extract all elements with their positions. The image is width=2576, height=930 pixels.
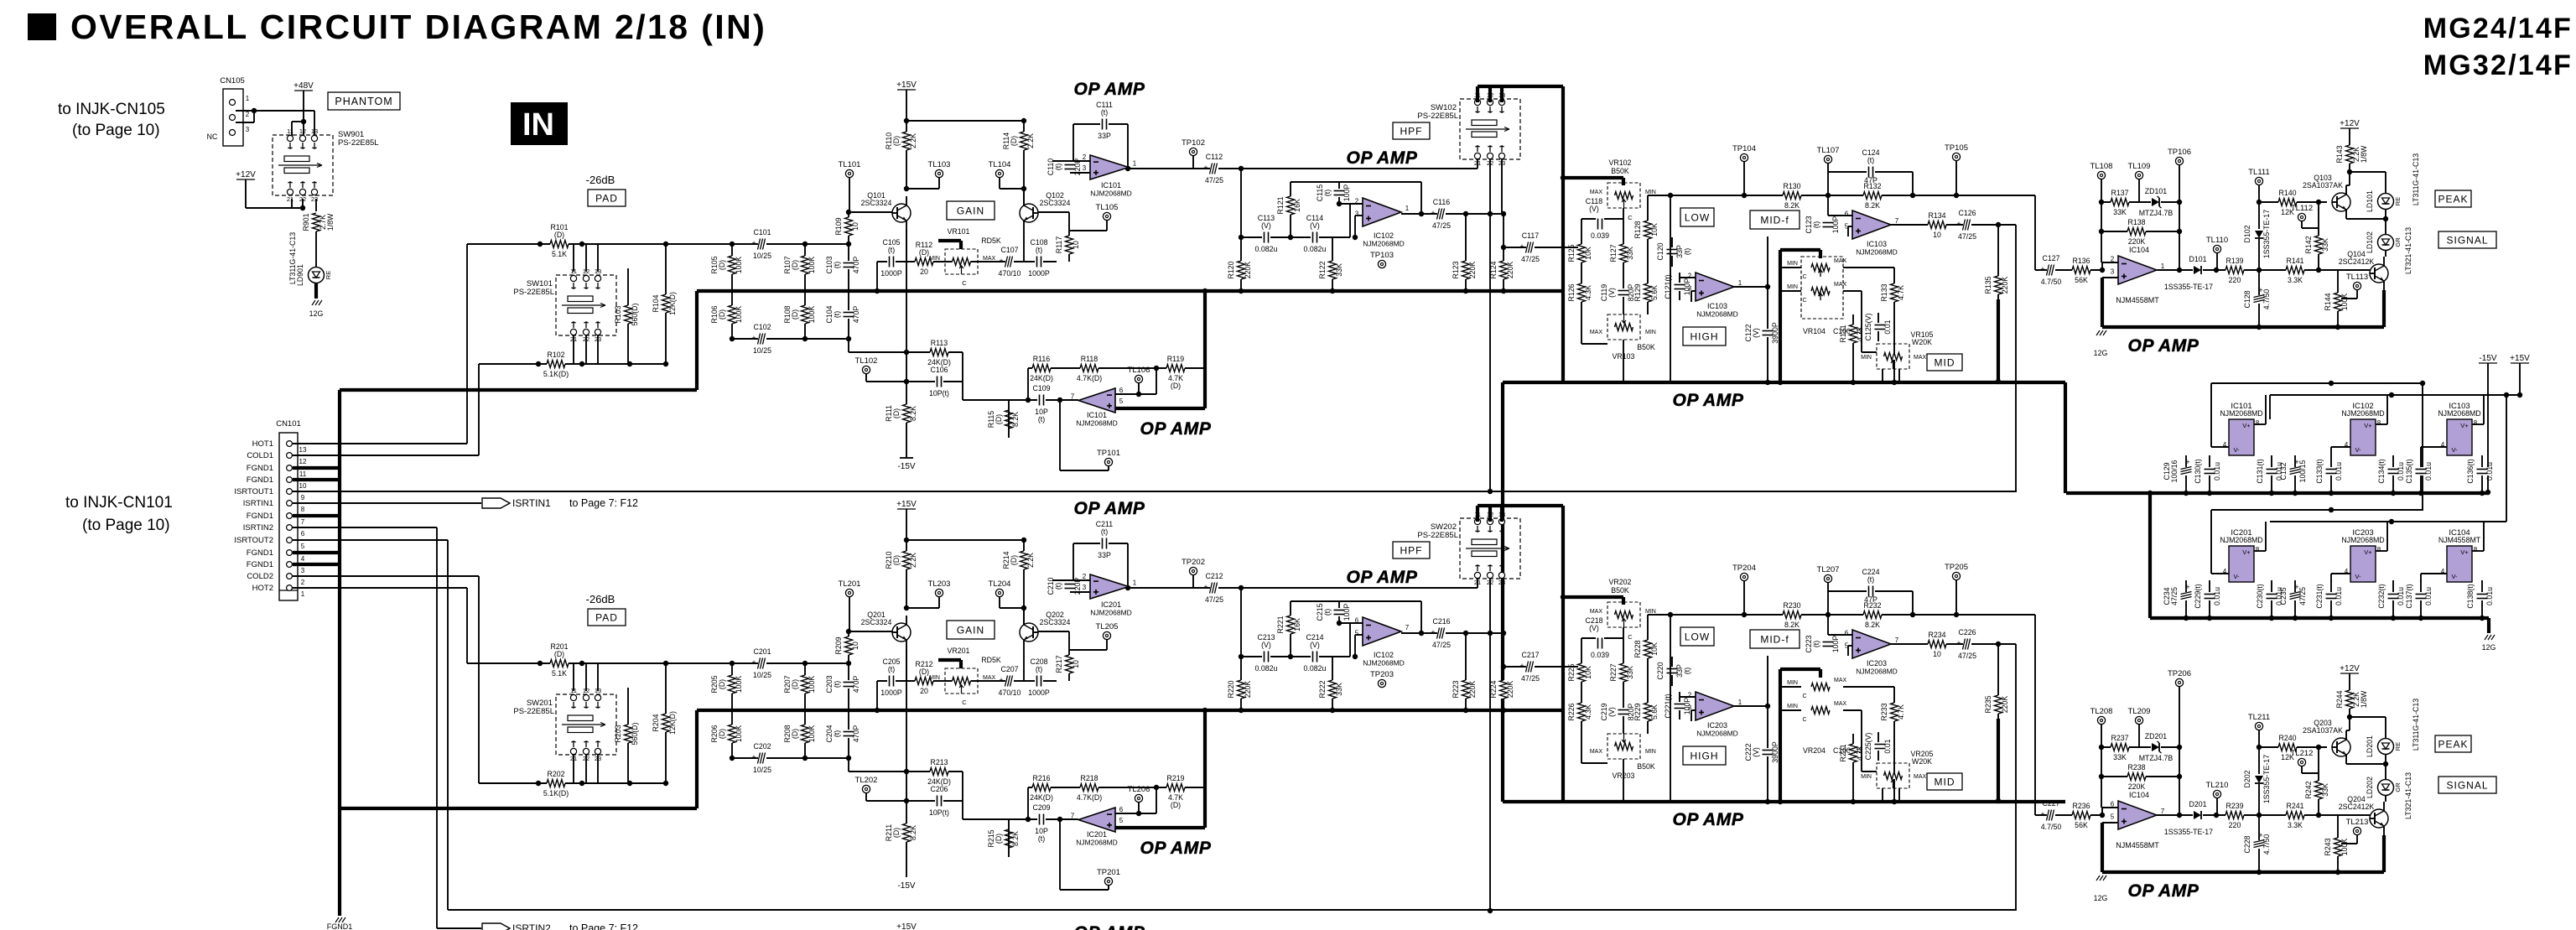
junction xyxy=(904,538,909,543)
junction xyxy=(802,756,808,761)
capacitor C116 xyxy=(1437,207,1446,221)
wire xyxy=(293,466,340,470)
svg-text:R236: R236 xyxy=(2072,802,2090,810)
svg-text:GAIN: GAIN xyxy=(957,624,984,636)
svg-text:R137: R137 xyxy=(2111,189,2128,197)
wire xyxy=(2034,740,2036,815)
capacitor C124 xyxy=(1867,165,1875,179)
svg-text:IC102: IC102 xyxy=(1374,231,1394,240)
svg-text:+: + xyxy=(2040,265,2044,273)
svg-text:1/8W: 1/8W xyxy=(2360,690,2368,708)
svg-text:V-: V- xyxy=(2355,446,2361,454)
wire xyxy=(436,527,438,928)
svg-text:+15V: +15V xyxy=(2510,354,2530,363)
svg-text:HIGH: HIGH xyxy=(1690,330,1719,342)
junction xyxy=(536,781,541,786)
wire xyxy=(1108,466,1109,470)
svg-text:OVERALL CIRCUIT DIAGRAM 2/18 (: OVERALL CIRCUIT DIAGRAM 2/18 (IN) xyxy=(70,8,766,46)
svg-text:OP AMP: OP AMP xyxy=(1140,839,1212,858)
svg-text:R226: R226 xyxy=(1567,703,1576,720)
wire xyxy=(1862,351,1877,353)
svg-text:7: 7 xyxy=(2161,808,2165,815)
diode D102 xyxy=(2254,229,2264,239)
wire xyxy=(2382,835,2386,872)
capacitor C207 xyxy=(1005,674,1014,688)
junction xyxy=(1021,186,1026,191)
wire xyxy=(1843,267,1894,268)
svg-text:-26dB: -26dB xyxy=(586,593,615,605)
wire xyxy=(1023,121,1025,204)
svg-text:0.039: 0.039 xyxy=(1591,231,1609,240)
resistor R238 xyxy=(2127,773,2146,780)
resistor R114 xyxy=(1021,132,1027,150)
svg-text:1: 1 xyxy=(246,95,250,102)
svg-text:R126: R126 xyxy=(1567,283,1576,301)
box label MID xyxy=(1927,773,1962,790)
svg-text:56K: 56K xyxy=(2075,821,2088,829)
svg-text:(V): (V) xyxy=(1607,707,1616,717)
svg-text:10/25: 10/25 xyxy=(753,671,771,679)
wire xyxy=(1877,313,1879,341)
junction xyxy=(875,288,880,294)
wire xyxy=(1893,268,1895,382)
pin FGND1 xyxy=(287,465,293,471)
wire xyxy=(1060,470,1109,471)
svg-text:R134: R134 xyxy=(1928,211,1945,220)
junction xyxy=(301,119,306,124)
junction xyxy=(1561,595,1566,600)
svg-text:C212: C212 xyxy=(1205,572,1223,580)
resistor R224 xyxy=(1500,680,1507,699)
wire xyxy=(2487,618,2490,633)
svg-text:R223: R223 xyxy=(1452,680,1460,698)
junction xyxy=(1463,211,1468,216)
wire xyxy=(2506,395,2507,522)
wire xyxy=(1338,601,1340,623)
svg-text:-26dB: -26dB xyxy=(586,174,615,186)
capacitor C212 xyxy=(1210,581,1218,595)
svg-text:47P: 47P xyxy=(1864,595,1877,604)
capacitor C120 xyxy=(1665,247,1679,256)
svg-text:R239: R239 xyxy=(2225,802,2243,810)
wire xyxy=(2035,269,2102,271)
junction xyxy=(904,118,909,123)
junction xyxy=(904,769,909,774)
wire xyxy=(1115,393,1156,395)
resistor R121 xyxy=(1287,196,1294,215)
svg-text:6: 6 xyxy=(1845,210,1849,218)
resistor R138 xyxy=(2127,228,2146,235)
wire xyxy=(293,575,479,577)
svg-text:COLD2: COLD2 xyxy=(247,572,273,581)
junction xyxy=(663,661,668,666)
wire xyxy=(1008,819,1010,857)
svg-text:(t): (t) xyxy=(833,262,841,268)
wire xyxy=(1070,591,1090,593)
wire xyxy=(963,399,1078,401)
wire xyxy=(1069,230,1107,231)
capacitor C110 xyxy=(1063,163,1077,171)
svg-text:C235: C235 xyxy=(2279,587,2288,605)
svg-text:TL209: TL209 xyxy=(2128,707,2151,716)
junction xyxy=(1765,799,1770,804)
wire xyxy=(597,755,599,783)
wire xyxy=(1129,168,1478,169)
wire xyxy=(1561,86,1565,382)
wire xyxy=(2265,522,2267,551)
svg-text:(t): (t) xyxy=(1323,609,1332,616)
svg-text:CN101: CN101 xyxy=(276,419,301,429)
wire xyxy=(906,230,907,262)
svg-text:C202: C202 xyxy=(753,742,771,751)
wire xyxy=(1332,237,1333,291)
resistor R239 xyxy=(2225,812,2244,818)
wire xyxy=(2102,277,2118,278)
svg-text:1: 1 xyxy=(301,590,305,598)
svg-text:PS-22E85L: PS-22E85L xyxy=(1417,112,1458,121)
wire xyxy=(2101,823,2104,872)
svg-text:OP AMP: OP AMP xyxy=(1074,499,1145,518)
wire xyxy=(2211,382,2423,384)
svg-text:VR201: VR201 xyxy=(948,647,970,655)
svg-text:C109: C109 xyxy=(1032,384,1050,392)
svg-text:C125(V): C125(V) xyxy=(1864,314,1872,341)
wire xyxy=(1488,506,1492,522)
wire xyxy=(1581,637,1623,639)
svg-text:D102: D102 xyxy=(2243,225,2251,242)
svg-text:+: + xyxy=(751,658,756,667)
junction xyxy=(1154,366,1159,371)
wire xyxy=(2301,766,2303,773)
svg-text:V-: V- xyxy=(2451,446,2458,454)
junction xyxy=(627,361,632,366)
wire xyxy=(2331,446,2350,448)
svg-text:2: 2 xyxy=(301,579,305,586)
svg-text:V-: V- xyxy=(2233,573,2240,580)
junction xyxy=(1778,799,1783,804)
svg-text:MAX: MAX xyxy=(1834,282,1847,288)
ground xyxy=(2096,330,2106,335)
box label PAD xyxy=(588,190,626,206)
wire xyxy=(293,502,481,504)
svg-text:R133: R133 xyxy=(1880,283,1888,301)
svg-text:+: + xyxy=(1519,662,1524,670)
wire xyxy=(315,199,317,211)
junction xyxy=(300,205,305,210)
svg-text:(D): (D) xyxy=(995,834,1003,844)
junction xyxy=(579,781,584,786)
junction xyxy=(2316,745,2321,750)
capacitor C232(t) xyxy=(2386,592,2400,600)
svg-text:R243: R243 xyxy=(2324,838,2332,855)
svg-text:FGND1: FGND1 xyxy=(247,548,273,558)
resistor R211 xyxy=(903,823,910,842)
wire xyxy=(1912,172,1914,195)
svg-text:TL103: TL103 xyxy=(928,160,951,169)
svg-text:MIN: MIN xyxy=(1645,330,1656,335)
svg-text:TL206: TL206 xyxy=(1128,785,1150,794)
svg-text:100K: 100K xyxy=(735,725,743,743)
svg-text:MAX: MAX xyxy=(983,256,996,262)
wire xyxy=(2254,423,2266,425)
junction xyxy=(875,708,880,713)
wire xyxy=(2216,798,2218,815)
wire xyxy=(866,800,906,802)
resistor R225 xyxy=(1578,663,1585,682)
svg-text:0.01u: 0.01u xyxy=(2213,462,2221,481)
junction xyxy=(1765,284,1770,289)
wire xyxy=(2318,747,2319,815)
wire xyxy=(627,268,629,364)
svg-text:(t): (t) xyxy=(1323,190,1332,196)
title square xyxy=(28,13,56,40)
svg-text:VR204: VR204 xyxy=(1803,746,1826,755)
svg-text:+12V: +12V xyxy=(2340,119,2360,128)
svg-text:(t): (t) xyxy=(833,730,841,737)
svg-text:W20K: W20K xyxy=(1912,338,1932,346)
svg-text:C134(t): C134(t) xyxy=(2377,459,2386,483)
wire xyxy=(1052,160,1090,162)
wire xyxy=(1028,787,1205,788)
wire xyxy=(302,199,304,208)
svg-text:5: 5 xyxy=(1355,629,1359,636)
svg-text:MID: MID xyxy=(1935,356,1955,368)
resistor R213 xyxy=(930,768,948,775)
svg-text:HPF: HPF xyxy=(1400,125,1423,137)
svg-text:12K(D): 12K(D) xyxy=(668,711,677,735)
resistor R201 xyxy=(550,660,569,667)
wire xyxy=(906,121,907,189)
svg-text:(t): (t) xyxy=(1101,108,1108,117)
svg-text:10P(t): 10P(t) xyxy=(929,389,949,397)
wire xyxy=(1623,340,1624,382)
wire xyxy=(2330,447,2332,455)
wire xyxy=(293,539,448,541)
svg-text:0.01: 0.01 xyxy=(1883,739,1892,753)
wire xyxy=(906,771,963,772)
capacitor C129 xyxy=(2179,467,2193,475)
svg-text:6: 6 xyxy=(2111,801,2115,808)
svg-text:GR: GR xyxy=(2394,782,2402,792)
wire xyxy=(1997,644,1999,721)
svg-text:8.2K: 8.2K xyxy=(1784,621,1800,629)
resistor R124 xyxy=(1500,261,1507,279)
box label PEAK xyxy=(2435,190,2471,207)
pin COLD1 xyxy=(287,453,293,459)
wire xyxy=(293,455,479,456)
svg-text:10: 10 xyxy=(851,642,860,650)
resistor R216 xyxy=(1032,784,1051,791)
resistor R105 xyxy=(729,256,735,274)
wire xyxy=(865,793,867,801)
svg-text:RD5K: RD5K xyxy=(981,236,1001,245)
svg-text:11: 11 xyxy=(287,127,293,135)
wire xyxy=(906,540,907,608)
wire xyxy=(2034,195,2036,270)
wire xyxy=(2420,455,2422,493)
wire xyxy=(2330,574,2332,582)
wire xyxy=(1354,216,1356,237)
capacitor C135(t) xyxy=(2414,467,2428,475)
svg-text:TL107: TL107 xyxy=(1817,146,1840,155)
svg-text:C: C xyxy=(1628,214,1633,221)
diode D101 xyxy=(2193,265,2203,275)
wire xyxy=(1734,286,1768,288)
wire xyxy=(906,649,907,681)
wire xyxy=(1073,543,1128,544)
svg-text:NJM2068MD: NJM2068MD xyxy=(2341,536,2384,544)
wire xyxy=(938,178,940,189)
svg-text:HPF: HPF xyxy=(1400,544,1423,556)
svg-text:5: 5 xyxy=(2111,813,2115,820)
junction xyxy=(846,210,851,215)
junction xyxy=(1239,708,1244,713)
svg-text:4.7/50: 4.7/50 xyxy=(2262,289,2271,310)
svg-text:470P: 470P xyxy=(852,257,860,274)
svg-text:R216: R216 xyxy=(1032,774,1050,782)
svg-text:NJM4558MT: NJM4558MT xyxy=(2116,296,2159,304)
svg-text:220P: 220P xyxy=(1073,578,1082,595)
svg-text:LD102: LD102 xyxy=(2366,231,2374,253)
svg-text:2.2K: 2.2K xyxy=(909,553,917,568)
junction xyxy=(1021,538,1026,543)
svg-text:8: 8 xyxy=(2474,546,2478,553)
svg-text:MAX: MAX xyxy=(1834,678,1847,683)
potentiometer xyxy=(945,249,978,274)
transistor Q101 xyxy=(892,204,911,222)
svg-text:47/25: 47/25 xyxy=(1521,674,1540,683)
svg-text:R103: R103 xyxy=(614,305,622,323)
wire xyxy=(1671,237,1673,267)
wire xyxy=(585,663,587,691)
svg-text:+: + xyxy=(1956,220,1961,228)
wire xyxy=(1069,649,1107,651)
junction xyxy=(1826,193,1831,198)
capacitor C224 xyxy=(1867,584,1875,598)
wire xyxy=(2035,814,2102,816)
wire xyxy=(314,111,315,137)
svg-text:47/25: 47/25 xyxy=(1521,255,1540,263)
wire xyxy=(1563,595,1623,599)
junction xyxy=(802,242,808,247)
wire xyxy=(2472,423,2484,425)
svg-text:10: 10 xyxy=(1072,241,1080,249)
svg-text:MIN: MIN xyxy=(929,256,940,262)
junction xyxy=(1337,621,1342,626)
svg-text:MID-f: MID-f xyxy=(1760,214,1789,226)
svg-text:(t): (t) xyxy=(1054,583,1062,590)
wire xyxy=(1877,732,1879,761)
svg-text:IC104: IC104 xyxy=(2129,791,2149,799)
wire xyxy=(2259,201,2327,203)
capacitor C114 xyxy=(1311,231,1319,244)
svg-text:R143: R143 xyxy=(2335,145,2344,163)
svg-text:7: 7 xyxy=(1405,624,1410,631)
svg-text:5.1K: 5.1K xyxy=(552,250,567,258)
svg-text:TL203: TL203 xyxy=(928,579,951,589)
junction xyxy=(2184,616,2189,621)
svg-text:NJM2068MD: NJM2068MD xyxy=(1696,310,1738,319)
wire xyxy=(1477,159,1478,169)
junction xyxy=(1239,166,1244,171)
svg-text:TL108: TL108 xyxy=(2090,162,2113,171)
svg-text:OP AMP: OP AMP xyxy=(1347,148,1418,168)
svg-text:IC203: IC203 xyxy=(1707,721,1727,730)
junction xyxy=(1892,380,1897,385)
svg-text:W20K: W20K xyxy=(1912,757,1932,766)
svg-text:220K: 220K xyxy=(1468,681,1477,699)
wire xyxy=(906,230,907,458)
wire xyxy=(849,597,850,631)
wire xyxy=(1827,583,1829,635)
svg-text:1: 1 xyxy=(1738,279,1742,287)
svg-text:TP101: TP101 xyxy=(1097,449,1120,458)
junction xyxy=(2257,325,2262,330)
svg-text:1000P: 1000P xyxy=(880,269,902,278)
svg-text:GAIN: GAIN xyxy=(957,205,984,216)
diode ZD101 xyxy=(2151,197,2161,207)
wire xyxy=(2318,202,2319,270)
svg-text:10P(t): 10P(t) xyxy=(929,808,949,817)
svg-text:470P: 470P xyxy=(852,725,860,743)
svg-text:IC103: IC103 xyxy=(1867,240,1887,248)
svg-text:R123: R123 xyxy=(1452,261,1460,278)
wire xyxy=(1401,632,1502,634)
capacitor C130(t) xyxy=(2203,467,2216,475)
junction xyxy=(1996,222,2001,227)
wire xyxy=(999,597,1000,608)
svg-text:8: 8 xyxy=(301,506,305,513)
resistor R109 xyxy=(845,217,852,236)
svg-text:V-: V- xyxy=(2355,573,2361,580)
svg-text:R240: R240 xyxy=(2278,734,2296,742)
junction xyxy=(1419,631,1424,636)
wiper xyxy=(1819,270,1823,277)
svg-text:C117: C117 xyxy=(1522,231,1539,240)
wire xyxy=(2386,395,2388,424)
svg-text:R235: R235 xyxy=(1984,695,1992,713)
wire xyxy=(2385,755,2386,779)
svg-text:0.01u: 0.01u xyxy=(2213,587,2221,605)
svg-text:TL113: TL113 xyxy=(2346,273,2368,282)
svg-text:4.7K(D): 4.7K(D) xyxy=(1077,374,1102,382)
svg-text:MIN: MIN xyxy=(929,675,940,681)
svg-text:8.2K: 8.2K xyxy=(1865,621,1880,629)
svg-text:C232(t): C232(t) xyxy=(2377,584,2386,608)
pin FGND1 xyxy=(287,477,293,483)
wire xyxy=(1891,224,2016,226)
svg-text:B50K: B50K xyxy=(1637,762,1655,771)
junction xyxy=(2207,616,2212,621)
svg-text:R131: R131 xyxy=(1839,325,1847,342)
wire xyxy=(906,351,963,353)
svg-text:100K: 100K xyxy=(808,725,816,743)
wire xyxy=(1779,669,1782,802)
wire xyxy=(1052,579,1090,581)
wire xyxy=(2337,270,2339,327)
svg-text:(D): (D) xyxy=(995,414,1003,424)
resistor R137 xyxy=(2111,199,2129,205)
wire xyxy=(2338,843,2357,844)
svg-text:RE: RE xyxy=(2394,197,2402,205)
transistor Q202 xyxy=(1020,623,1038,642)
wire xyxy=(340,388,697,392)
svg-text:1SS355-TE-17: 1SS355-TE-17 xyxy=(2262,755,2271,803)
svg-text:IC203: IC203 xyxy=(1867,659,1887,668)
junction xyxy=(1851,799,1856,804)
wire xyxy=(1912,591,1914,615)
wire xyxy=(1478,85,1563,88)
